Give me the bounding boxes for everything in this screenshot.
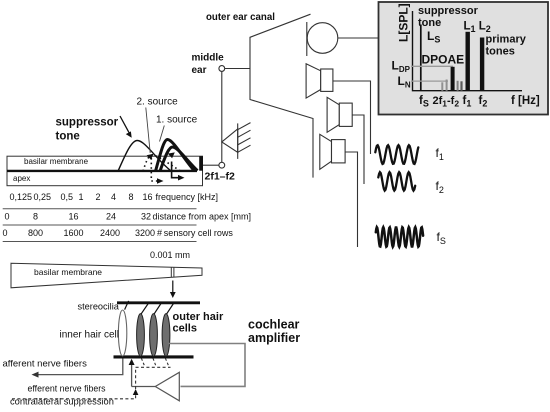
svg-text:3200: 3200 — [135, 228, 155, 238]
level line LN — [411, 80, 448, 82]
arrowhead on curve B peak — [168, 152, 175, 158]
arrow label to curve — [120, 116, 130, 134]
outer hair cell 3 — [162, 314, 170, 357]
stereocilium OHC1 — [141, 303, 148, 314]
svg-text:afferent nerve fibers: afferent nerve fibers — [3, 359, 88, 370]
level line LDP — [411, 65, 453, 67]
middle ear fixed support — [222, 123, 251, 159]
amplifier triangle — [155, 372, 179, 401]
afferent arrowhead — [32, 372, 39, 378]
svg-text:2400: 2400 — [100, 228, 120, 238]
wire speaker1 to f1 — [333, 81, 371, 154]
dashed synapse OHC3 — [165, 358, 169, 367]
efferent wire up — [131, 364, 133, 387]
distance scale row — [5, 212, 252, 222]
afferent wire — [36, 359, 123, 375]
svg-text:0,5: 0,5 — [61, 192, 74, 202]
svg-text:efferent nerve fibers: efferent nerve fibers — [28, 384, 107, 394]
svg-text:primary: primary — [486, 34, 527, 46]
bar L2 — [480, 38, 484, 91]
svg-text:32: 32 — [141, 212, 151, 222]
inner hair cell — [118, 310, 126, 356]
stereocilium OHC2 — [154, 303, 161, 314]
svg-text:distance from apex [mm]: distance from apex [mm] — [153, 212, 252, 222]
svg-text:16: 16 — [69, 212, 79, 222]
wire node down to cochlea node — [221, 71, 223, 162]
outer hair cell 1 — [137, 314, 145, 357]
svg-text:0,25: 0,25 — [34, 192, 52, 202]
basal membrane line — [114, 355, 194, 358]
noise floor bars — [441, 82, 443, 90]
svg-text:tones: tones — [486, 46, 515, 58]
basilar membrane wedge — [11, 263, 202, 288]
dashed synapse OHC1 — [141, 358, 145, 367]
efferent dashed collector horizontal — [136, 366, 171, 368]
stereocilium OHC3 — [167, 303, 174, 314]
contralateral arrowhead — [133, 389, 139, 395]
svg-text:tone: tone — [56, 131, 80, 143]
svg-text:cells: cells — [173, 323, 197, 335]
svg-text:8: 8 — [129, 192, 134, 202]
svg-text:0.001 mm: 0.001 mm — [150, 250, 190, 260]
svg-text:cochlear: cochlear — [248, 318, 300, 332]
outer hair cell 2 — [150, 314, 158, 357]
svg-text:800: 800 — [28, 228, 43, 238]
stapes end bar — [199, 156, 203, 171]
svg-text:1600: 1600 — [64, 228, 84, 238]
sine wave fS — [376, 227, 423, 247]
bar fS suppressor line — [420, 25, 422, 91]
svg-text:suppressor: suppressor — [418, 5, 479, 17]
svg-text:2. source: 2. source — [137, 97, 179, 108]
spectrum panel (gray box) — [379, 2, 549, 115]
svg-text:0,125: 0,125 — [10, 192, 33, 202]
arrow wedge to section — [172, 281, 174, 294]
feedback loop wire — [169, 344, 246, 387]
basilar membrane line — [7, 170, 197, 172]
svg-text:stereocilia: stereocilia — [78, 302, 120, 312]
bar L1 — [466, 32, 470, 91]
cell rows scale line — [3, 224, 197, 226]
svg-text:L[SPL]: L[SPL] — [397, 3, 411, 42]
contralateral dashed wire — [12, 392, 136, 399]
svg-text:DPOAE: DPOAE — [422, 53, 465, 67]
svg-text:apex: apex — [13, 174, 30, 183]
svg-text:# sensory cell rows: # sensory cell rows — [157, 228, 233, 238]
loudspeaker 3 — [320, 134, 345, 169]
cell rows scale row — [3, 228, 234, 238]
cochlea node — [219, 162, 225, 168]
efferent dashed collector vertical — [135, 367, 137, 389]
svg-text:contralateral suppression: contralateral suppression — [10, 397, 114, 407]
svg-text:4: 4 — [111, 192, 116, 202]
axis L[SPL] / f — [413, 11, 523, 91]
svg-text:basilar membrane: basilar membrane — [24, 157, 89, 166]
svg-text:2f1–f2: 2f1–f2 — [205, 171, 236, 183]
bar DPOAE 2f1-f2 — [451, 67, 455, 91]
svg-text:0: 0 — [5, 212, 10, 222]
section ticks — [170, 267, 172, 277]
shifted source envelope (thick curve B) — [160, 147, 198, 171]
basilar membrane box — [7, 156, 203, 186]
leader 2. source — [146, 108, 150, 154]
svg-text:middle: middle — [192, 53, 225, 64]
frequency scale row — [10, 192, 219, 202]
svg-text:1. source: 1. source — [156, 115, 198, 126]
1. source envelope (thick curve) — [156, 140, 195, 172]
dashed synapse OHC2 — [153, 358, 156, 367]
wire mic to panel — [338, 37, 379, 39]
svg-text:basilar membrane: basilar membrane — [34, 267, 102, 277]
efferent wire from amp — [132, 386, 156, 388]
arrowhead on dotted peak — [147, 154, 154, 160]
sine wave f2 — [378, 172, 415, 190]
svg-text:outer ear canal: outer ear canal — [206, 12, 275, 23]
svg-text:frequency [kHz]: frequency [kHz] — [156, 192, 219, 202]
svg-text:16: 16 — [143, 192, 153, 202]
sine wave f1 — [375, 145, 418, 164]
middle ear node — [219, 66, 225, 72]
svg-text:1: 1 — [79, 192, 84, 202]
distance scale line — [3, 208, 197, 210]
stereocilium IHC — [125, 301, 129, 310]
microphone — [306, 22, 308, 56]
svg-text:inner hair cell: inner hair cell — [60, 330, 119, 341]
dotted shift arrow — [151, 158, 158, 181]
solid shift arrow — [172, 162, 179, 178]
wire speaker3 to fS — [345, 152, 357, 247]
svg-text:2: 2 — [96, 192, 101, 202]
svg-text:ear: ear — [192, 65, 207, 76]
loudspeaker 1 — [306, 64, 333, 98]
loudspeaker 2 — [327, 97, 352, 132]
outer ear canal funnel — [250, 14, 313, 177]
bottom scale line — [3, 241, 197, 243]
svg-text:0: 0 — [3, 228, 8, 238]
wire speaker2 to f2 — [352, 115, 364, 184]
leader 1. source — [160, 126, 165, 142]
tectorial membrane line — [117, 301, 200, 304]
svg-text:24: 24 — [106, 212, 116, 222]
suppressor tone envelope (thin curve) — [118, 141, 171, 172]
svg-text:amplifier: amplifier — [248, 331, 300, 345]
svg-text:8: 8 — [33, 212, 38, 222]
wire box to cochlea node — [203, 164, 219, 166]
suppressed 2. source envelope (dotted curve) — [143, 155, 180, 171]
efferent arrowhead — [129, 359, 135, 365]
svg-text:outer hair: outer hair — [173, 311, 224, 323]
svg-text:f [Hz]: f [Hz] — [511, 95, 540, 107]
svg-text:suppressor: suppressor — [56, 117, 119, 129]
wire node to funnel — [225, 68, 250, 70]
